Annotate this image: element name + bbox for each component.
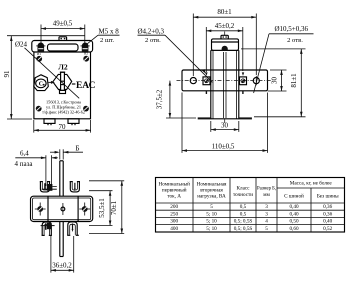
svg-text:6,4: 6,4 (20, 149, 29, 157)
top cap front (32, 41, 93, 53)
svg-text:С шиной: С шиной (284, 192, 304, 199)
foot left (44, 119, 55, 125)
svg-text:0,60: 0,60 (289, 226, 298, 232)
svg-text:5; 10: 5; 10 (206, 211, 217, 217)
table row 3 (170, 219, 332, 225)
label diam 10.5 (254, 25, 314, 93)
svg-text:Класс: Класс (237, 186, 251, 192)
svg-text:30: 30 (271, 77, 279, 85)
svg-text:45±0,2: 45±0,2 (215, 22, 235, 30)
svg-text:250: 250 (170, 211, 178, 217)
svg-text:2 отв.: 2 отв. (145, 37, 161, 44)
dim 70+-1 (89, 181, 124, 234)
svg-text:30: 30 (221, 122, 229, 130)
body plan outer (31, 196, 93, 221)
svg-text:5; 10: 5; 10 (206, 219, 217, 225)
svg-text:Масса, кг, не более: Масса, кг, не более (290, 180, 333, 187)
dim 37.5+-2 (156, 81, 197, 118)
dim 49+-0.5 (41, 20, 85, 46)
dim 91 (3, 36, 85, 119)
svg-text:первичный: первичный (162, 187, 187, 194)
header col2 (197, 182, 227, 200)
dashed centerline stem vertical (224, 32, 226, 125)
foot right side (238, 117, 252, 119)
cap nub (221, 35, 228, 39)
dim 70 (34, 120, 91, 133)
svg-text:0,36: 0,36 (323, 211, 332, 217)
svg-text:5; 10: 5; 10 (206, 226, 217, 232)
mounting hole left (190, 78, 196, 84)
svg-text:0,5: 0,5 (240, 204, 247, 210)
svg-text:3: 3 (265, 204, 268, 210)
dashed centerline horizontal (177, 80, 273, 82)
table row 4 (170, 226, 332, 232)
table row 2 (170, 211, 332, 217)
dim 110+-0.5 (182, 93, 268, 153)
svg-text:400: 400 (170, 226, 178, 232)
svg-text:ток, А: ток, А (167, 194, 181, 200)
mounting hole right (253, 76, 259, 85)
bus bar cross-section (61, 72, 65, 90)
svg-text:49±0,5: 49±0,5 (53, 20, 73, 28)
svg-text:5: 5 (210, 204, 213, 210)
svg-text:Б: Б (76, 145, 80, 153)
svg-text:2 шт.: 2 шт. (100, 37, 114, 44)
body case front (34, 52, 91, 119)
svg-text:36±0,2: 36±0,2 (52, 261, 72, 269)
fork terminal bottom-left (41, 222, 55, 235)
dim 53.5+-1 (89, 191, 113, 226)
dim 6.4 slots (15, 149, 58, 186)
svg-text:37,5±2: 37,5±2 (156, 89, 164, 109)
plan screw right (79, 203, 90, 216)
clamp arrow left (48, 81, 54, 84)
dim 81+-1 (241, 49, 306, 117)
header col1 (158, 181, 190, 200)
dim 36+-0.2 (51, 236, 74, 273)
svg-text:200: 200 (170, 204, 178, 210)
bus bar foot (60, 90, 66, 93)
nub rivets (60, 38, 62, 40)
svg-text:мм: мм (263, 192, 270, 198)
stem cap side (212, 39, 239, 50)
inner bar hidden lines (224, 52, 226, 118)
svg-text:Номинальный: Номинальный (158, 181, 190, 188)
dim 80+-1 (193, 8, 256, 76)
svg-text:Ø24: Ø24 (15, 41, 28, 49)
svg-text:4 паза: 4 паза (15, 160, 34, 168)
label diam 24 with leader (15, 41, 79, 99)
top nub (59, 37, 67, 41)
label diam 4.2 (138, 28, 213, 83)
svg-text:С: С (39, 82, 43, 88)
svg-text:0,50: 0,50 (289, 219, 298, 225)
svg-text:Л2: Л2 (58, 63, 68, 72)
svg-text:0,52: 0,52 (323, 226, 332, 232)
dim B bar (50, 145, 83, 160)
dim 45+-0.2 (205, 22, 243, 76)
fork terminal top-left (40, 182, 57, 192)
screw tip under right pad (242, 91, 244, 94)
body plan inner (33, 198, 91, 220)
M5 bolt right (81, 43, 90, 53)
center section lines (48, 196, 78, 221)
svg-text:0,36: 0,36 (323, 204, 332, 210)
svg-text:2 отв.: 2 отв. (287, 37, 303, 44)
bus bar top (60, 161, 63, 196)
svg-text:нагрузка, ВА: нагрузка, ВА (197, 194, 226, 200)
svg-text:0,40: 0,40 (323, 219, 332, 225)
clamp dash right (72, 83, 76, 85)
small hole pad right (240, 72, 247, 84)
header col3 (233, 186, 253, 199)
bus bar top cap (60, 71, 65, 73)
screw tip under left pad (205, 91, 207, 94)
svg-text:0,5; 0,5S: 0,5; 0,5S (234, 219, 253, 225)
fork terminal bottom-right (67, 222, 79, 235)
svg-text:И2: И2 (84, 52, 88, 56)
foot right (68, 119, 79, 125)
bus bar bottom (60, 222, 63, 257)
svg-text:И1: И1 (37, 52, 41, 56)
svg-text:ЕАС: ЕАС (76, 80, 96, 91)
window core hexagon (53, 74, 72, 89)
label M5x8 (87, 28, 120, 45)
table row 1 (170, 204, 332, 210)
svg-text:81±1: 81±1 (290, 73, 298, 88)
svg-text:Ø10,5+0,36: Ø10,5+0,36 (275, 25, 309, 33)
svg-text:110±0,5: 110±0,5 (212, 143, 235, 151)
small hole pad left (203, 77, 210, 85)
svg-text:70±1: 70±1 (110, 200, 118, 215)
svg-text:5: 5 (265, 226, 268, 232)
foot left side (198, 117, 212, 119)
svg-text:300: 300 (170, 219, 178, 225)
stem body side (211, 50, 239, 119)
certification stamp (34, 75, 49, 91)
fork terminal top-right (70, 182, 80, 192)
svg-text:M5 x 8: M5 x 8 (99, 28, 120, 36)
lower screw right (83, 106, 89, 112)
svg-text:точности: точности (233, 192, 253, 198)
base flange side (182, 70, 268, 91)
M5 bolt left (36, 43, 45, 52)
svg-text:Размер Б,: Размер Б, (257, 186, 276, 192)
svg-text:3: 3 (265, 211, 268, 217)
svg-text:70: 70 (59, 123, 67, 131)
svg-text:0,40: 0,40 (289, 204, 298, 210)
terminal cover slot (48, 44, 79, 51)
header mass sub (284, 192, 339, 199)
secondary screw right (83, 52, 89, 62)
svg-text:53,5±1: 53,5±1 (98, 198, 106, 218)
plan center hole (61, 203, 65, 215)
dim 30 plate (268, 70, 287, 91)
bus bar mid lines (61, 81, 65, 84)
svg-text:Ø4,2+0,3: Ø4,2+0,3 (138, 28, 165, 36)
svg-text:91: 91 (3, 70, 11, 78)
svg-text:0,5: 0,5 (240, 211, 247, 217)
svg-text:0,5; 0,5S: 0,5; 0,5S (234, 226, 253, 232)
svg-text:80±1: 80±1 (217, 8, 232, 16)
svg-text:т/ф.факс (4942) 32-46-62: т/ф.факс (4942) 32-46-62 (42, 110, 85, 115)
table grid (156, 178, 345, 233)
lower screw left (36, 106, 42, 112)
svg-text:0,40: 0,40 (289, 211, 298, 217)
plan screw left (35, 203, 46, 216)
header col4 (257, 186, 276, 199)
secondary screw left (36, 52, 42, 62)
dim 30 stem (211, 121, 239, 132)
svg-text:Без шины: Без шины (317, 193, 339, 199)
svg-text:4: 4 (265, 219, 268, 225)
